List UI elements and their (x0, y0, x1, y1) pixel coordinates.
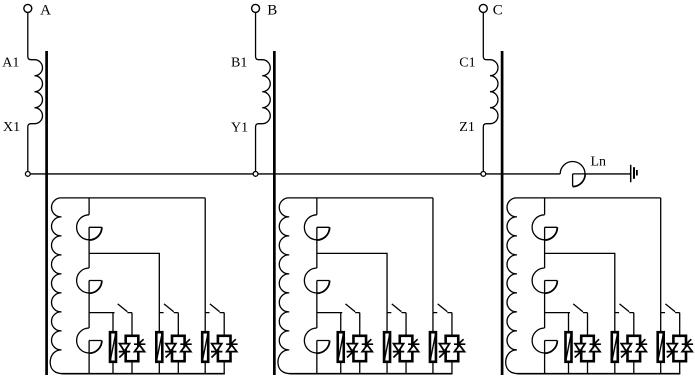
svg-text:Z1: Z1 (459, 120, 475, 135)
svg-text:A: A (40, 3, 51, 19)
svg-text:X1: X1 (3, 120, 20, 135)
svg-text:C: C (493, 3, 503, 19)
svg-text:Ln: Ln (591, 155, 607, 170)
svg-text:Y1: Y1 (231, 120, 248, 135)
svg-text:B1: B1 (231, 55, 247, 70)
svg-text:A1: A1 (2, 56, 19, 71)
svg-text:C1: C1 (459, 56, 475, 71)
svg-text:B: B (267, 3, 277, 19)
